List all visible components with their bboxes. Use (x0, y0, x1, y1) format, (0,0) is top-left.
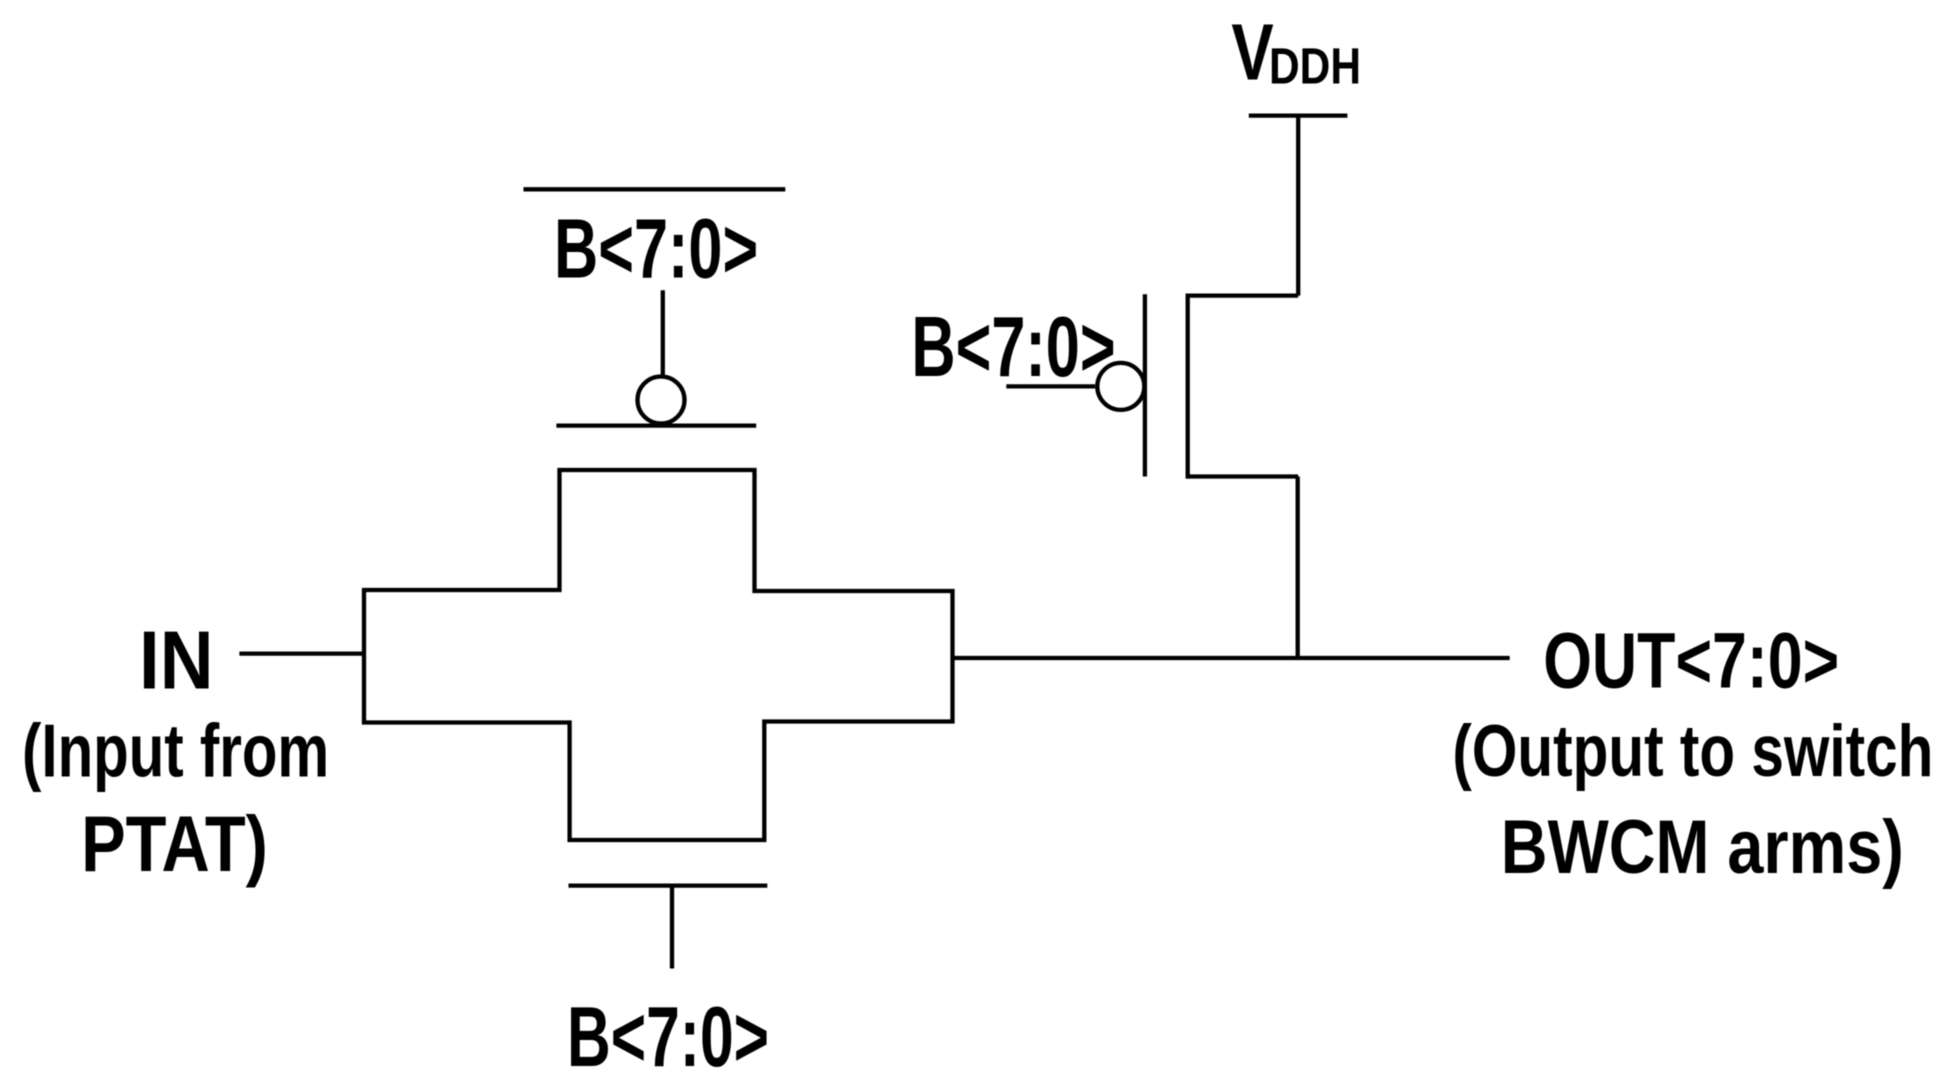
svg-text:B<7:0>: B<7:0> (567, 989, 769, 1085)
transistor M1 channel line (1186, 294, 1190, 479)
svg-text:BWCM arms): BWCM arms) (1501, 805, 1904, 890)
TG1 bottom gate bar (NMOS side) (569, 883, 768, 887)
overline of B<7:0> (top) (524, 187, 786, 191)
wire TG1 top gate stem (661, 290, 665, 377)
TG1 top gate bar (PMOS side) (556, 423, 756, 427)
svg-text:DDH: DDH (1269, 38, 1361, 95)
wire IN lead (239, 651, 362, 655)
transistor M1 source arm (1188, 474, 1299, 478)
transistor M1 drain arm (1188, 293, 1299, 297)
svg-text:IN: IN (139, 614, 214, 707)
svg-text:OUT<7:0>: OUT<7:0> (1543, 615, 1839, 704)
wire M1 gate lead (1006, 384, 1095, 388)
wire M1 source to OUT net (1296, 477, 1300, 661)
transistor M1 gate line (1143, 294, 1147, 476)
wire VDDH vertical (1296, 116, 1300, 296)
transistor M1 gate bubble (1097, 363, 1144, 410)
svg-text:(Output to switch: (Output to switch (1452, 710, 1933, 792)
svg-text:(Input from: (Input from (22, 709, 329, 793)
wire OUT net (953, 656, 1510, 660)
TG1 top gate bubble (638, 377, 685, 424)
wire TG1 bottom gate stem (670, 886, 674, 969)
transmission gate TG1 body (364, 470, 953, 840)
svg-text:B<7:0>: B<7:0> (554, 201, 758, 295)
svg-text:PTAT): PTAT) (81, 799, 268, 888)
svg-text:B<7:0>: B<7:0> (911, 300, 1115, 395)
svg-text:V: V (1231, 8, 1273, 97)
VDDH supply bar (1249, 113, 1348, 117)
